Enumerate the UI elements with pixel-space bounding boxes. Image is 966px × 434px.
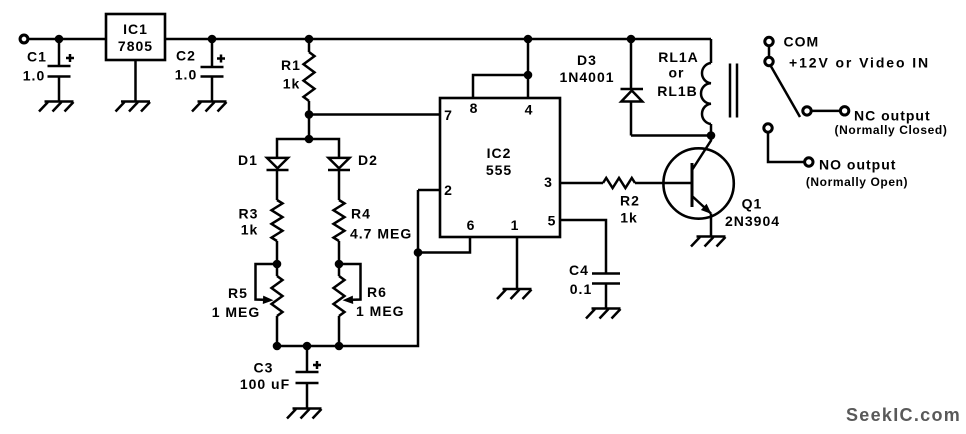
wire pin 3 stub	[560, 182, 603, 185]
node junction C1/top rail	[55, 35, 64, 44]
svg-text:555: 555	[486, 162, 512, 178]
capacitor C3 100 uF	[240, 346, 321, 409]
svg-text:C1: C1	[27, 49, 47, 65]
wire pin 1 ground lead	[516, 237, 519, 289]
svg-text:1k: 1k	[241, 222, 259, 238]
capacitor C4 0.1	[569, 262, 620, 309]
svg-text:2: 2	[444, 182, 453, 198]
node junction pin4/top rail	[524, 35, 533, 44]
diode D3 1N4001	[559, 39, 643, 136]
svg-text:R1: R1	[281, 57, 301, 73]
node junction divider branch	[305, 135, 314, 144]
node junction pin6/pin2 net	[414, 248, 423, 257]
resistor R4 4.7 MEG	[334, 200, 413, 264]
potentiometer R6 1 MEG	[334, 264, 405, 346]
svg-text:RL1A: RL1A	[658, 49, 699, 65]
relay coil RL1A or RL1B	[657, 39, 711, 136]
node junction R1/top rail	[305, 35, 314, 44]
node junction R1 bottom / pin7 wire	[305, 110, 314, 119]
svg-text:1 MEG: 1 MEG	[212, 304, 261, 320]
wire branch rail to D1/D2	[277, 139, 339, 158]
diode D2	[328, 152, 378, 200]
wire pin 5 to C4	[560, 220, 606, 274]
ground below C1	[39, 102, 74, 112]
svg-text:D1: D1	[238, 152, 258, 168]
svg-text:C2: C2	[176, 48, 196, 64]
svg-text:1N4001: 1N4001	[559, 69, 614, 85]
svg-text:1 MEG: 1 MEG	[356, 303, 405, 319]
wire R1 bottom down to divider branch	[308, 115, 311, 140]
wire top rail from IC1 output to relay	[165, 38, 711, 41]
node junction relay/D3/collector	[707, 131, 716, 140]
wire pin 6 to pin 2 net	[418, 237, 470, 253]
node junction C2/top rail	[208, 35, 217, 44]
svg-text:1: 1	[511, 217, 520, 233]
input terminal J1	[20, 35, 28, 43]
svg-text:1k: 1k	[620, 210, 638, 226]
wire D3 to relay/collector node	[631, 134, 711, 137]
svg-text:5: 5	[548, 213, 557, 229]
potentiometer R5 1 MEG	[212, 264, 283, 346]
svg-text:R3: R3	[239, 206, 259, 222]
svg-text:C3: C3	[254, 360, 274, 376]
svg-text:COM: COM	[784, 34, 820, 50]
wire R2 to Q1 base	[635, 182, 692, 185]
switch contact NO output	[764, 124, 908, 189]
svg-text:100 uF: 100 uF	[240, 376, 290, 392]
svg-text:4: 4	[525, 102, 534, 118]
node junction R6 top	[335, 260, 344, 269]
svg-text:R2: R2	[620, 193, 640, 209]
wire bottom rail	[277, 190, 418, 346]
wire pin 2 stub	[418, 189, 440, 192]
svg-text:R6: R6	[367, 284, 387, 300]
transistor Q1 2N3904	[663, 136, 780, 237]
wire IC1 ground lead	[134, 60, 137, 102]
svg-text:IC2: IC2	[487, 145, 512, 161]
node junction R5 top	[273, 260, 282, 269]
capacitor C2 1.0	[175, 39, 225, 102]
svg-text:6: 6	[467, 217, 476, 233]
svg-text:NC output: NC output	[854, 107, 931, 123]
node junction D3/top rail	[627, 35, 636, 44]
svg-text:(Normally Open): (Normally Open)	[806, 175, 908, 189]
ground below pin 1	[497, 289, 532, 299]
wire top rail left of IC1	[28, 38, 106, 41]
resistor R1 1k	[281, 39, 314, 115]
wire pin 4 to top rail	[527, 39, 530, 98]
svg-text:0.1: 0.1	[570, 281, 592, 297]
node junction pin4/pin8	[524, 71, 533, 80]
svg-text:1.0: 1.0	[175, 67, 197, 83]
svg-text:or: or	[669, 65, 685, 81]
svg-text:3: 3	[544, 174, 553, 190]
switch contact COM	[765, 34, 819, 66]
capacitor C1 1.0	[23, 39, 74, 102]
diode D1	[238, 152, 288, 200]
wire pin 8 to pin 4 net	[473, 75, 528, 98]
wire R1 bottom to IC2 pin 7	[309, 113, 440, 116]
switch contact NC output	[803, 107, 948, 137]
svg-text:D2: D2	[358, 152, 378, 168]
switch arm wire	[771, 66, 801, 118]
svg-text:2N3904: 2N3904	[725, 213, 780, 229]
ground below C4	[586, 309, 621, 319]
svg-text:8: 8	[470, 100, 479, 116]
svg-text:4.7 MEG: 4.7 MEG	[350, 226, 412, 242]
node junction R5 bottom	[273, 342, 282, 351]
ground below Q1 emitter	[691, 237, 726, 247]
resistor R2 1k	[603, 178, 640, 226]
svg-text:1k: 1k	[283, 76, 301, 92]
ground below IC1	[116, 102, 151, 112]
svg-text:7: 7	[444, 107, 453, 123]
ground below C2	[192, 102, 227, 112]
op-amp/timer IC2 555 box	[440, 98, 560, 237]
svg-text:NO output: NO output	[819, 156, 896, 172]
resistor R3 1k	[239, 200, 283, 264]
svg-text:SeekIC.com: SeekIC.com	[846, 405, 961, 425]
node junction R6 bottom	[335, 342, 344, 351]
svg-text:R5: R5	[228, 285, 248, 301]
svg-text:IC1: IC1	[123, 21, 148, 37]
svg-text:Q1: Q1	[742, 196, 763, 212]
regulator IC1 7805	[106, 14, 165, 60]
svg-text:(Normally Closed): (Normally Closed)	[835, 123, 948, 137]
ground below C3	[287, 409, 322, 419]
svg-text:+12V or Video IN: +12V or Video IN	[789, 55, 930, 71]
svg-text:RL1B: RL1B	[657, 83, 698, 99]
svg-text:C4: C4	[569, 262, 589, 278]
svg-text:1.0: 1.0	[23, 68, 45, 84]
svg-text:R4: R4	[351, 206, 371, 222]
node junction C3 top	[303, 342, 312, 351]
svg-text:7805: 7805	[118, 38, 153, 54]
relay core lines	[730, 64, 737, 118]
svg-text:D3: D3	[577, 52, 597, 68]
